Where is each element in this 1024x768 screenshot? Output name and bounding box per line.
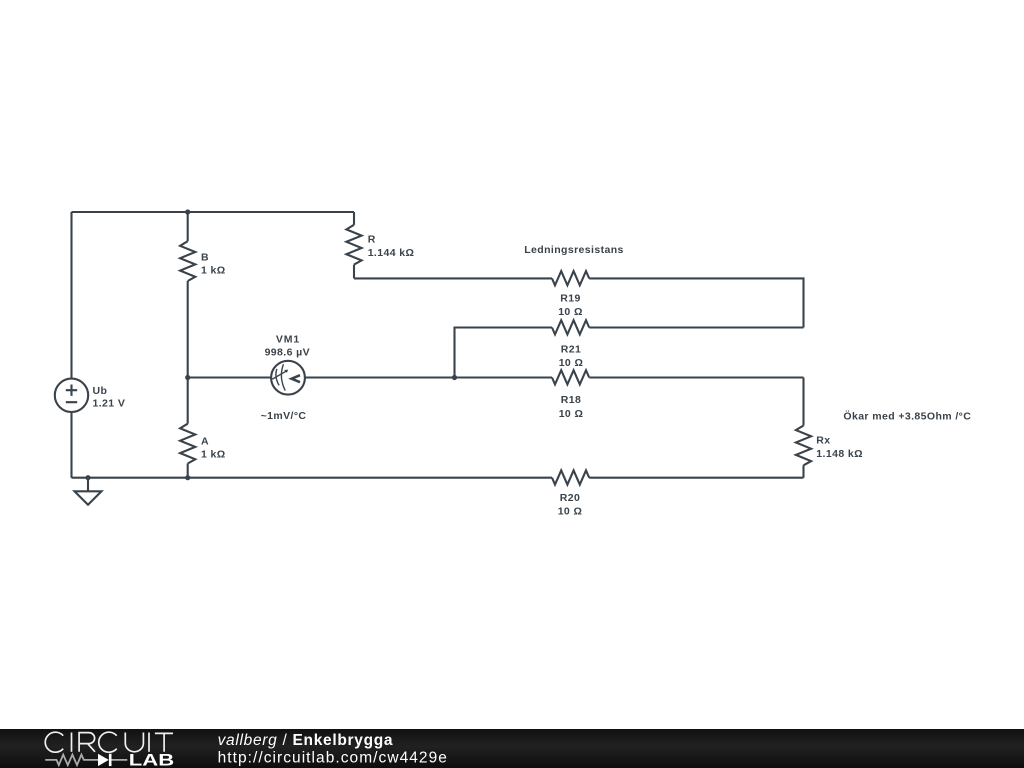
svg-text:LAB: LAB <box>129 751 174 768</box>
svg-text:R: R <box>368 233 376 245</box>
wire mid to right vertical <box>589 376 803 378</box>
wire bottom horizontal right <box>589 477 803 479</box>
wire R19 right + down <box>589 278 803 327</box>
node top junction <box>185 209 190 214</box>
wire left vertical lower <box>70 412 72 478</box>
voltage source Ub <box>55 379 88 412</box>
svg-text:R20: R20 <box>560 492 580 504</box>
logo resistor-diode line <box>45 755 127 766</box>
svg-text:Ub: Ub <box>93 385 108 397</box>
wire right vertical upper lead Rx <box>802 378 804 426</box>
resistor R19 <box>552 271 589 285</box>
voltmeter VM1 <box>271 361 305 395</box>
svg-text:Ledningsresistans: Ledningsresistans <box>524 244 624 256</box>
svg-text:10 Ω: 10 Ω <box>559 408 584 420</box>
resistor R20 <box>552 470 589 484</box>
svg-text:10 Ω: 10 Ω <box>558 306 583 318</box>
wire left vertical upper <box>70 212 72 379</box>
wire mid right segment <box>305 376 552 378</box>
svg-text:1.21 V: 1.21 V <box>93 397 126 409</box>
resistor R18 <box>552 370 589 384</box>
node bridge junction <box>452 375 457 380</box>
svg-text:R18: R18 <box>561 394 581 406</box>
svg-text:VM1: VM1 <box>276 334 300 346</box>
wire R bottom lead <box>353 265 355 279</box>
wire mid left segment <box>188 376 271 378</box>
ground <box>75 478 102 505</box>
svg-text:R21: R21 <box>561 343 581 355</box>
wire R top lead <box>353 212 355 225</box>
svg-text:10 Ω: 10 Ω <box>558 506 583 518</box>
svg-text:Ökar med +3.85Ohm /°C: Ökar med +3.85Ohm /°C <box>843 410 971 423</box>
svg-text:1.144 kΩ: 1.144 kΩ <box>368 247 415 259</box>
svg-text:vallberg / Enkelbrygga: vallberg / Enkelbrygga <box>218 732 394 749</box>
wire R19 left <box>354 277 552 279</box>
wire A bottom lead <box>187 464 189 478</box>
wire top horizontal <box>72 211 355 213</box>
svg-text:~1mV/°C: ~1mV/°C <box>261 410 307 422</box>
svg-text:B: B <box>201 251 209 263</box>
wire B bottom to mid <box>187 281 189 378</box>
svg-text:1 kΩ: 1 kΩ <box>201 264 226 276</box>
resistor Rx <box>796 426 811 466</box>
footer bar <box>0 729 1024 768</box>
resistor R21 <box>552 320 589 334</box>
svg-text:1 kΩ: 1 kΩ <box>201 449 226 461</box>
wire R21 left + stub down <box>455 328 553 378</box>
wire bottom horizontal left <box>72 477 553 479</box>
wire Rx bottom lead <box>802 465 804 477</box>
node ground junction <box>85 475 90 480</box>
node mid junction <box>185 375 190 380</box>
wire A top lead <box>187 378 189 424</box>
svg-text:1.148 kΩ: 1.148 kΩ <box>816 448 863 460</box>
svg-text:998.6 µV: 998.6 µV <box>265 346 310 358</box>
logo CIRCUIT <box>45 732 173 752</box>
svg-text:R19: R19 <box>560 293 580 305</box>
wire B top lead <box>187 212 189 241</box>
resistor A <box>180 424 195 464</box>
node bottom junction <box>185 475 190 480</box>
wire R21 right <box>589 326 803 328</box>
logo diode <box>98 754 112 766</box>
resistor R <box>346 225 361 265</box>
svg-text:A: A <box>201 436 209 448</box>
svg-text:http://circuitlab.com/cw4429e: http://circuitlab.com/cw4429e <box>218 750 448 767</box>
svg-text:10 Ω: 10 Ω <box>559 357 584 369</box>
svg-text:Rx: Rx <box>816 435 830 447</box>
resistor B <box>180 241 195 281</box>
